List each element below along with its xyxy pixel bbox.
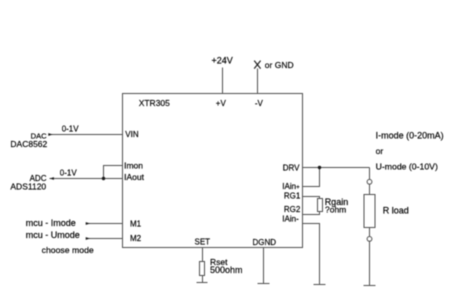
svg-text:ADS1120: ADS1120: [10, 181, 46, 191]
svg-text:0-1V: 0-1V: [60, 169, 78, 178]
svg-text:DGND: DGND: [253, 238, 277, 247]
svg-text:or GND: or GND: [265, 60, 294, 70]
svg-text:IAin-: IAin-: [282, 214, 299, 223]
svg-text:or: or: [376, 146, 384, 156]
svg-text:?ohm: ?ohm: [325, 205, 346, 215]
svg-text:M2: M2: [130, 234, 142, 243]
svg-text:M1: M1: [130, 219, 142, 228]
svg-text:+V: +V: [216, 99, 227, 108]
svg-text:DRV: DRV: [283, 163, 300, 172]
svg-text:VIN: VIN: [125, 130, 139, 139]
svg-text:SET: SET: [195, 238, 211, 247]
svg-text:I-mode (0-20mA): I-mode (0-20mA): [376, 130, 444, 140]
svg-text:IAout: IAout: [124, 172, 144, 182]
svg-text:+24V: +24V: [212, 56, 233, 66]
svg-text:Imon: Imon: [124, 161, 143, 171]
svg-text:RG1: RG1: [284, 192, 301, 201]
svg-text:choose mode: choose mode: [42, 245, 94, 255]
svg-text:RG2: RG2: [284, 205, 301, 214]
svg-text:0-1V: 0-1V: [62, 124, 80, 133]
svg-text:-V: -V: [255, 99, 264, 108]
svg-text:DAC8562: DAC8562: [10, 139, 47, 149]
svg-text:mcu - Imode: mcu - Imode: [26, 218, 76, 228]
svg-text:mcu - Umode: mcu - Umode: [26, 230, 80, 240]
svg-text:XTR305: XTR305: [139, 98, 170, 108]
svg-text:U-mode (0-10V): U-mode (0-10V): [376, 162, 438, 172]
svg-text:500ohm: 500ohm: [210, 265, 243, 275]
svg-text:R load: R load: [383, 206, 409, 216]
svg-text:IAin+: IAin+: [282, 182, 300, 191]
